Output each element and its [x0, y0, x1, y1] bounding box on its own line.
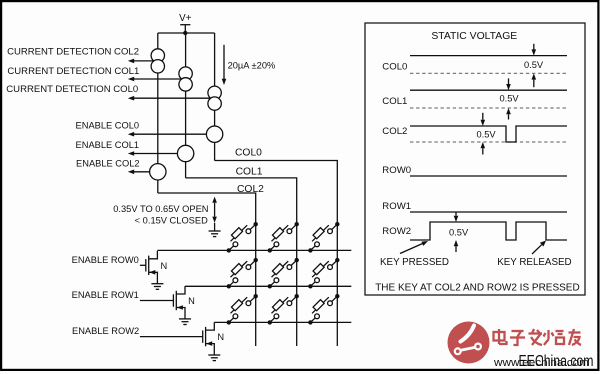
key switch COL1/ROW0 [268, 222, 299, 253]
key switch COL2/ROW1 [227, 258, 258, 289]
wire: enable COL2 tap [134, 171, 158, 173]
fa [529, 332, 543, 334]
arrowhead: enable COL2 [128, 170, 134, 175]
svg-text:CURRENT DETECTION COL2: CURRENT DETECTION COL2 [7, 47, 139, 58]
wire: COL1 line to matrix [186, 178, 297, 346]
wire: current detection COL2 tap [134, 60, 158, 62]
20uA current annotation arrow [222, 45, 276, 85]
zi [512, 330, 524, 332]
svg-text:STATIC VOLTAGE: STATIC VOLTAGE [431, 31, 517, 42]
timing diagram box [365, 23, 585, 295]
svg-text:ENABLE ROW1: ENABLE ROW1 [72, 290, 139, 300]
svg-text:CURRENT DETECTION COL1: CURRENT DETECTION COL1 [7, 66, 139, 77]
you [569, 331, 581, 333]
KEY PRESSED annotation [380, 241, 449, 268]
watermark: EEChina logo [448, 322, 490, 364]
svg-text:ENABLE COL1: ENABLE COL1 [76, 140, 140, 150]
svg-text:EEChina.com: EEChina.com [519, 353, 594, 370]
wire: COL1 branch vertical [185, 33, 187, 178]
wire: COL0 line to matrix [215, 161, 338, 347]
wire: COL2 branch vertical [157, 33, 159, 193]
svg-text:0.5V: 0.5V [449, 227, 469, 237]
ROW1 level line [410, 211, 567, 213]
wire: enable COL0 tap [134, 133, 215, 135]
switch: enable COL0 [206, 126, 222, 142]
COL1 threshold dashed line [410, 107, 567, 109]
svg-text:ENABLE COL0: ENABLE COL0 [76, 121, 140, 131]
svg-text:0.35V TO 0.65V OPEN: 0.35V TO 0.65V OPEN [113, 204, 208, 214]
svg-text:THE KEY AT COL2 AND ROW2 IS PR: THE KEY AT COL2 AND ROW2 IS PRESSED [375, 282, 580, 293]
svg-text:< 0.15V CLOSED: < 0.15V CLOSED [135, 215, 208, 225]
ground (COL2 measurement reference) [209, 223, 221, 237]
wire: ROW2 line [214, 321, 351, 323]
svg-text:COL1: COL1 [382, 96, 407, 107]
key switch COL0/ROW0 [308, 222, 339, 253]
ROW2 waveform with key press pulse [410, 222, 567, 240]
V+ power symbol [179, 13, 192, 33]
current source I3 (COL0 detection) [208, 86, 221, 110]
ground (Q1 source) [151, 284, 163, 290]
transistor Q2 ENABLE ROW1 (NMOS) [140, 286, 195, 319]
arrowhead: current detection COL1 [128, 77, 134, 82]
KEY RELEASED annotation [497, 241, 571, 268]
ROW2 0.5V annotation [449, 212, 469, 252]
COL0 static level line [410, 55, 567, 57]
svg-text:KEY PRESSED: KEY PRESSED [380, 257, 449, 268]
COL0 threshold dashed line [410, 72, 567, 74]
dian [494, 332, 505, 341]
key switch COL1/ROW2 [268, 294, 299, 325]
key switch COL0/ROW1 [308, 258, 339, 289]
watermark: Chinese characters [494, 329, 582, 345]
arrowhead: enable COL0 [128, 132, 134, 137]
COL2 0.5V annotation [476, 113, 496, 155]
wire: COL2 line to matrix [158, 193, 256, 346]
svg-text:COL0: COL0 [382, 61, 407, 72]
COL0 0.5V annotation [524, 44, 544, 87]
svg-text:KEY RELEASED: KEY RELEASED [497, 257, 571, 268]
wire: current detection COL1 tap [134, 78, 186, 80]
svg-text:ENABLE ROW2: ENABLE ROW2 [72, 326, 139, 336]
COL1 static level line [410, 89, 567, 91]
key switch COL2/ROW0 [227, 222, 258, 253]
svg-text:ENABLE COL2: ENABLE COL2 [76, 159, 140, 169]
svg-text:0.5V: 0.5V [476, 130, 496, 140]
COL2 threshold dashed line [410, 141, 567, 143]
arrowhead: current detection COL2 [128, 59, 134, 64]
voltage spec annotation with double arrow [113, 197, 217, 226]
svg-text:COL0: COL0 [235, 148, 262, 159]
key switch COL1/ROW1 [268, 258, 299, 289]
svg-text:CURRENT DETECTION COL0: CURRENT DETECTION COL0 [6, 84, 138, 95]
wire: V+ top rail [158, 32, 215, 34]
svg-text:ENABLE ROW0: ENABLE ROW0 [72, 255, 139, 265]
svg-text:0.5V: 0.5V [524, 60, 544, 70]
wire: ROW0 line [157, 249, 351, 251]
shao [547, 330, 549, 340]
key switch COL0/ROW2 [308, 294, 339, 325]
wire: ROW1 line [185, 285, 351, 287]
arrowhead: current detection COL0 [128, 96, 134, 101]
svg-text:ROW0: ROW0 [382, 165, 411, 176]
wire: enable COL1 tap [134, 153, 186, 155]
arrowhead: enable COL1 [128, 151, 134, 156]
svg-text:ROW1: ROW1 [382, 201, 411, 212]
svg-text:COL1: COL1 [236, 166, 263, 177]
COL1 0.5V annotation [499, 78, 519, 119]
COL2 level line with key-press notch [410, 126, 567, 142]
current source I2 (COL1 detection) [179, 67, 192, 91]
transistor Q1 ENABLE ROW0 (NMOS) [140, 251, 167, 284]
current source I1 (COL2 detection) [151, 49, 164, 73]
svg-text:V+: V+ [179, 13, 192, 24]
svg-text:ROW2: ROW2 [382, 226, 411, 237]
svg-text:0.5V: 0.5V [499, 94, 519, 104]
svg-text:COL2: COL2 [382, 126, 407, 137]
switch: enable COL2 [150, 164, 166, 180]
ground (Q2 source) [179, 319, 191, 325]
transistor Q3 ENABLE ROW2 (NMOS) [140, 322, 224, 355]
wire: current detection COL0 tap [134, 97, 215, 99]
ground (Q3 source) [208, 355, 220, 361]
key switch COL2/ROW2 (pressed) [227, 294, 258, 325]
junction dot on V+ rail [183, 31, 187, 35]
svg-text:COL2: COL2 [237, 184, 264, 195]
ROW0 level line [410, 175, 567, 177]
switch: enable COL1 [177, 145, 193, 161]
wire: COL0 branch vertical [214, 33, 216, 161]
svg-text:20µA ±20%: 20µA ±20% [228, 61, 276, 71]
